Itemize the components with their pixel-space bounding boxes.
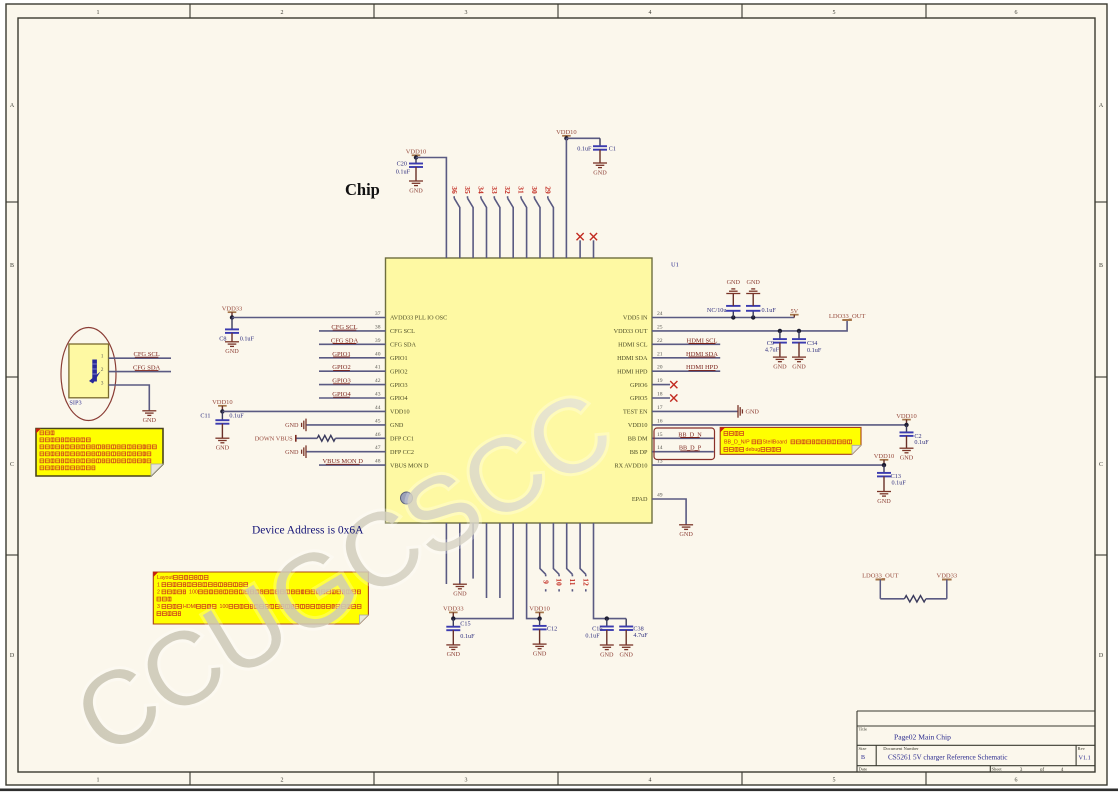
ground xyxy=(225,342,239,355)
net label GPIO1 xyxy=(332,351,350,358)
svg-text:GND: GND xyxy=(593,169,607,176)
ground (pin 45) xyxy=(285,419,306,432)
capacitor C13 0.1uF xyxy=(877,465,906,491)
pin number 32 (rotated) xyxy=(503,186,512,194)
note (BB_D_N/P debug note) xyxy=(720,427,861,454)
svg-text:DOWN VBUS: DOWN VBUS xyxy=(255,436,293,443)
pin number 21 xyxy=(657,351,663,357)
svg-text:4.7uF: 4.7uF xyxy=(633,632,648,639)
svg-text:4: 4 xyxy=(649,778,652,784)
svg-text:36: 36 xyxy=(450,186,459,194)
svg-text:VDD10: VDD10 xyxy=(390,409,410,416)
pin number 44 xyxy=(375,405,381,411)
pin number 20 xyxy=(657,365,663,371)
svg-text:of: of xyxy=(1040,766,1045,773)
ground xyxy=(792,357,806,370)
pin number 16 xyxy=(657,418,663,424)
svg-text:D: D xyxy=(1099,653,1104,659)
svg-text:GND: GND xyxy=(727,279,741,286)
wire top pin 36 xyxy=(454,196,460,258)
svg-text:30: 30 xyxy=(530,186,539,194)
wire bottom pin xyxy=(499,523,501,598)
op-amp U1 IC CS5261 chip body xyxy=(386,258,653,523)
power VDD10 xyxy=(212,399,233,411)
power LDO33_OUT xyxy=(829,313,865,320)
svg-text:B: B xyxy=(1099,263,1103,269)
wire pin 15 xyxy=(652,437,714,439)
svg-text:45: 45 xyxy=(375,418,381,424)
wire pin 41 xyxy=(319,370,386,372)
svg-text:43: 43 xyxy=(375,392,381,398)
svg-text:3: 3 xyxy=(157,604,160,610)
junction xyxy=(564,136,568,140)
power VDD10 xyxy=(529,606,550,619)
wire xyxy=(416,158,446,259)
pin number 37 xyxy=(375,311,381,317)
svg-text:GND: GND xyxy=(447,651,461,658)
svg-text:6: 6 xyxy=(1015,778,1018,784)
pin number 11 (rotated) xyxy=(568,578,577,585)
svg-text:18: 18 xyxy=(657,392,663,398)
wire (nc stub) xyxy=(579,240,581,258)
svg-text:StellBoard: StellBoard xyxy=(763,440,787,446)
wire pin 37 xyxy=(232,317,386,319)
pin number 19 xyxy=(657,378,663,384)
svg-text:GPIO4: GPIO4 xyxy=(390,395,408,402)
note (debug note) xyxy=(36,429,163,477)
svg-text:SIP3: SIP3 xyxy=(69,399,81,406)
no-connect X xyxy=(670,394,677,401)
no-connect X xyxy=(670,381,677,388)
power VDD33 xyxy=(443,606,464,619)
ground (inverted) xyxy=(746,279,760,294)
svg-text:0.1uF: 0.1uF xyxy=(396,168,411,175)
power VDD33 xyxy=(222,305,243,317)
junction xyxy=(605,616,609,620)
svg-text:Sheet: Sheet xyxy=(992,766,1003,771)
svg-text:C12: C12 xyxy=(547,625,557,632)
svg-text:CS5261 5V charger Reference Sc: CS5261 5V charger Reference Schematic xyxy=(888,754,1008,762)
svg-text:12: 12 xyxy=(581,578,590,586)
wire connector pin 3 xyxy=(109,385,150,411)
pin number 38 xyxy=(375,324,381,330)
wire xyxy=(297,437,318,439)
resistor (series, DFP CC1) xyxy=(317,435,335,441)
svg-text:2: 2 xyxy=(157,590,160,596)
wire pin 45 xyxy=(307,424,386,426)
svg-text:3: 3 xyxy=(1020,767,1023,773)
net label GPIO4 xyxy=(332,391,351,398)
net label CFG_SCL xyxy=(133,351,159,358)
wire connector pin 2 xyxy=(109,371,172,373)
pin number 41 xyxy=(375,365,381,371)
net label VBUS_MON_D xyxy=(322,458,363,465)
wire top pin 30 xyxy=(534,196,540,258)
svg-text:1: 1 xyxy=(97,10,100,16)
svg-text:VDD10: VDD10 xyxy=(529,606,550,613)
junction xyxy=(451,616,455,620)
svg-text:Size: Size xyxy=(859,746,867,751)
wire pin 48 xyxy=(319,464,386,466)
ground xyxy=(600,645,614,658)
svg-text:GND: GND xyxy=(877,498,891,505)
pin number 45 xyxy=(375,418,381,424)
svg-text:GND: GND xyxy=(216,445,230,452)
svg-text:31: 31 xyxy=(517,186,526,194)
junction xyxy=(220,409,224,413)
pin number 24 xyxy=(657,311,663,317)
svg-text:BB_D_N/P: BB_D_N/P xyxy=(724,440,750,446)
pin number 47 xyxy=(375,445,381,451)
ground xyxy=(533,644,547,657)
svg-text:D: D xyxy=(10,653,15,659)
wire pin 46 xyxy=(335,437,385,439)
capacitor C38 4.7uF xyxy=(619,619,648,645)
svg-text:CFG SDA: CFG SDA xyxy=(390,342,416,349)
power VDD10 xyxy=(896,413,917,425)
capacitor C34 0.1uF xyxy=(792,331,822,357)
wire xyxy=(880,598,904,600)
wire pin 19 (nc stub) xyxy=(652,384,670,386)
highlight box BB pins xyxy=(654,428,715,460)
wire pin 24 xyxy=(652,317,794,319)
power LDO33_OUT xyxy=(862,573,898,599)
pin number 25 xyxy=(657,324,663,330)
svg-text:V1.1: V1.1 xyxy=(1079,755,1091,762)
ground xyxy=(142,411,156,424)
svg-text:44: 44 xyxy=(375,405,381,411)
svg-text:GND: GND xyxy=(225,348,239,355)
ground (pin 47) xyxy=(285,445,306,458)
svg-text:41: 41 xyxy=(375,365,381,371)
junction xyxy=(797,329,801,333)
svg-text:GPIO6: GPIO6 xyxy=(630,382,648,389)
wire bottom pin 9 xyxy=(540,523,546,592)
svg-text:2: 2 xyxy=(281,10,284,16)
svg-text:C: C xyxy=(1099,462,1103,468)
net label CFG_SDA xyxy=(133,364,161,371)
net label HDMI HPD xyxy=(686,364,718,371)
ground xyxy=(409,181,423,194)
power 5V xyxy=(790,308,799,318)
svg-text:A: A xyxy=(1099,103,1104,109)
svg-text:GPIO2: GPIO2 xyxy=(390,368,408,375)
pin number 10 (rotated) xyxy=(555,578,564,586)
svg-text:HDMI SCL: HDMI SCL xyxy=(618,342,648,349)
svg-text:GND: GND xyxy=(409,187,423,194)
pin number 30 (rotated) xyxy=(530,186,539,194)
net label CFG SDA xyxy=(331,337,359,344)
svg-text:22: 22 xyxy=(657,338,663,344)
svg-text:HDMI HPD: HDMI HPD xyxy=(617,368,648,375)
svg-text:35: 35 xyxy=(463,186,472,194)
net label HDMI SDA xyxy=(686,351,718,358)
net label BB_D_P xyxy=(679,445,702,452)
pin number 15 xyxy=(657,432,663,438)
capacitor C20 0.1uF xyxy=(396,158,423,181)
svg-text:16: 16 xyxy=(657,418,663,424)
power VDD10 (top right) xyxy=(556,129,577,137)
net label BB_D_N xyxy=(678,431,702,438)
no-connect X xyxy=(590,233,597,240)
pin number 42 xyxy=(375,378,381,384)
wire pin 38 xyxy=(319,330,386,332)
svg-text:19: 19 xyxy=(657,378,663,384)
svg-text:3: 3 xyxy=(465,10,468,16)
wire pin 18 (nc stub) xyxy=(652,397,670,399)
wire (nc stub) xyxy=(593,240,595,258)
svg-text:2: 2 xyxy=(281,778,284,784)
svg-text:3: 3 xyxy=(101,380,104,386)
svg-text:10: 10 xyxy=(555,578,564,586)
pin number 39 xyxy=(375,338,381,344)
ground xyxy=(593,163,607,176)
wire pin 22 xyxy=(652,343,720,345)
capacitor C9 4.7uF xyxy=(765,331,787,357)
pin number 35 (rotated) xyxy=(463,186,472,194)
junction xyxy=(414,155,418,159)
no-connect X xyxy=(577,233,584,240)
svg-text:3: 3 xyxy=(465,778,468,784)
wire top pin 32 xyxy=(508,196,514,258)
junction xyxy=(537,616,541,620)
svg-text:1: 1 xyxy=(157,582,160,588)
svg-text:B: B xyxy=(861,755,865,761)
wire xyxy=(453,523,513,619)
svg-text:GND: GND xyxy=(285,449,299,456)
ground xyxy=(877,492,891,505)
svg-text:C1: C1 xyxy=(609,146,616,153)
svg-text:48: 48 xyxy=(375,459,381,465)
highlight ellipse xyxy=(61,328,116,421)
wire pin 20 xyxy=(652,370,720,372)
svg-text:Date: Date xyxy=(859,766,868,771)
svg-text:1: 1 xyxy=(101,354,104,360)
svg-text:debug: debug xyxy=(746,447,761,453)
wire pin 16 xyxy=(652,424,907,426)
svg-text:4: 4 xyxy=(1061,767,1064,773)
svg-text:40: 40 xyxy=(375,351,381,357)
svg-text:5: 5 xyxy=(833,778,836,784)
svg-text:VDD33 OUT: VDD33 OUT xyxy=(614,328,648,335)
wire pin 14 xyxy=(652,451,714,453)
capacitor C11 0.1uF xyxy=(200,411,244,438)
net label CFG SCL xyxy=(331,324,357,331)
svg-text:Chip: Chip xyxy=(345,180,380,199)
svg-text:GND: GND xyxy=(533,650,547,657)
svg-text:17: 17 xyxy=(657,405,663,411)
wire top pin 34 xyxy=(481,196,487,258)
pin number 17 xyxy=(657,405,663,411)
pin number 13 xyxy=(657,459,663,465)
wire xyxy=(926,598,947,600)
ground xyxy=(446,645,460,658)
svg-text:47: 47 xyxy=(375,445,381,451)
pin number 22 xyxy=(657,338,663,344)
svg-text:NC/10u: NC/10u xyxy=(707,307,727,314)
capacitor C1 0.1uF xyxy=(577,138,616,163)
svg-text:0.1uF: 0.1uF xyxy=(585,632,600,639)
junction xyxy=(882,463,886,467)
pin number 49 xyxy=(657,493,663,499)
wire pin 42 xyxy=(319,384,386,386)
svg-text:VDD10: VDD10 xyxy=(628,422,648,429)
junction xyxy=(751,315,755,319)
connector J1 SIP3 xyxy=(69,344,109,406)
wire top pin 29 xyxy=(548,196,554,258)
pin number 43 xyxy=(375,392,381,398)
pin number 18 xyxy=(657,392,663,398)
svg-text:A: A xyxy=(10,103,15,109)
pin number 29 (rotated) xyxy=(543,186,552,194)
wire xyxy=(565,138,567,258)
ground xyxy=(679,525,693,538)
svg-text:32: 32 xyxy=(503,186,512,194)
svg-text:Rev: Rev xyxy=(1078,746,1086,751)
wire pin 21 xyxy=(652,357,720,359)
svg-text:C34: C34 xyxy=(807,340,817,347)
watermark xyxy=(56,369,631,778)
port DOWN_VBUS xyxy=(255,435,296,443)
svg-text:B: B xyxy=(10,263,14,269)
svg-text:Layout: Layout xyxy=(157,575,173,581)
svg-text:4: 4 xyxy=(649,10,652,16)
capacitor C8 0.1uF xyxy=(219,318,254,343)
svg-text:U1: U1 xyxy=(671,262,679,269)
svg-text:EPAD: EPAD xyxy=(632,496,648,503)
pin number 31 (rotated) xyxy=(517,186,526,194)
svg-text:GND: GND xyxy=(390,422,404,429)
junction xyxy=(778,329,782,333)
svg-text:14: 14 xyxy=(657,445,663,451)
capacitor C15 0.1uF xyxy=(446,619,475,645)
capacitor C12 xyxy=(533,619,558,644)
svg-text:0.1uF: 0.1uF xyxy=(229,413,244,420)
ground xyxy=(619,645,633,658)
svg-text:VDD5 IN: VDD5 IN xyxy=(623,315,648,322)
net label HDMI SCL xyxy=(687,337,718,344)
svg-text:GND: GND xyxy=(792,363,806,370)
pin number 36 (rotated) xyxy=(450,186,459,194)
junction xyxy=(230,315,234,319)
svg-text:Device Address is 0x6A: Device Address is 0x6A xyxy=(252,525,364,537)
svg-text:Title: Title xyxy=(859,727,868,732)
svg-text:BB DP: BB DP xyxy=(630,449,648,456)
ground xyxy=(215,438,229,451)
svg-text:C: C xyxy=(10,462,14,468)
pin number 9 (rotated) xyxy=(541,580,550,584)
ground xyxy=(773,357,787,370)
svg-text:2: 2 xyxy=(101,367,104,373)
svg-text:GND: GND xyxy=(600,651,614,658)
wire pin 49 EPAD xyxy=(652,499,686,525)
svg-text:C15: C15 xyxy=(460,621,470,628)
svg-text:C11: C11 xyxy=(200,413,210,420)
pin number 12 (rotated) xyxy=(581,578,590,586)
svg-text:38: 38 xyxy=(375,324,381,330)
pin number 33 (rotated) xyxy=(490,186,499,194)
resistor (LDO33_OUT to VDD33) xyxy=(904,596,926,602)
power VDD10 (top left) xyxy=(406,149,427,158)
svg-text:GND: GND xyxy=(773,363,787,370)
svg-text:0.1uF: 0.1uF xyxy=(762,307,777,314)
svg-text:37: 37 xyxy=(375,311,381,317)
wire bottom pin xyxy=(486,523,488,598)
svg-text:GPIO3: GPIO3 xyxy=(390,382,408,389)
pin number 14 xyxy=(657,445,663,451)
svg-text:HDMI SDA: HDMI SDA xyxy=(617,355,648,362)
wire bottom pin xyxy=(459,523,461,584)
wire xyxy=(594,523,627,619)
note Device Address xyxy=(252,525,364,537)
svg-text:5: 5 xyxy=(833,10,836,16)
svg-text:46: 46 xyxy=(375,432,381,438)
svg-text:25: 25 xyxy=(657,324,663,330)
ground xyxy=(453,584,467,597)
wire top pin 35 xyxy=(468,196,474,258)
net label GPIO3 xyxy=(332,378,350,385)
wire pin 47 xyxy=(307,451,386,453)
svg-text:GND: GND xyxy=(143,417,157,424)
svg-text:DFP CC1: DFP CC1 xyxy=(390,436,414,443)
wire bottom pin 11 xyxy=(567,523,573,592)
svg-text:20: 20 xyxy=(657,365,663,371)
svg-text:GND: GND xyxy=(285,422,299,429)
svg-text:0.1uF: 0.1uF xyxy=(807,347,822,354)
svg-text:9: 9 xyxy=(541,580,550,584)
capacitor 0.1uF xyxy=(746,294,776,318)
svg-text:29: 29 xyxy=(543,186,552,194)
svg-text:0.1uF: 0.1uF xyxy=(240,335,255,342)
wire bottom pin xyxy=(472,523,474,579)
wire xyxy=(527,523,540,619)
svg-text:VDD33: VDD33 xyxy=(443,606,464,613)
wire connector pin 1 xyxy=(109,357,172,359)
wire pin 25 xyxy=(652,320,847,331)
wire top pin 31 xyxy=(521,196,527,258)
svg-text:39: 39 xyxy=(375,338,381,344)
svg-text:4.7uF: 4.7uF xyxy=(765,346,780,353)
power VDD33 xyxy=(937,573,958,599)
capacitor C-NC/10u xyxy=(707,294,741,318)
svg-text:GND: GND xyxy=(746,279,760,286)
pin number 40 xyxy=(375,351,381,357)
wire bottom pin xyxy=(445,523,447,584)
wire pin 17 xyxy=(652,410,738,412)
svg-text:0.1uF: 0.1uF xyxy=(577,146,592,153)
svg-text:49: 49 xyxy=(657,493,663,499)
svg-text:15: 15 xyxy=(657,432,663,438)
ground (inverted) xyxy=(726,279,740,294)
title text Chip xyxy=(345,180,380,199)
svg-text:42: 42 xyxy=(375,378,381,384)
svg-text:GND: GND xyxy=(453,591,467,598)
svg-text:TEST EN: TEST EN xyxy=(623,409,648,416)
note (Layout note) xyxy=(153,572,368,624)
svg-text:GND: GND xyxy=(746,409,760,416)
svg-text:Page02 Main Chip: Page02 Main Chip xyxy=(894,733,951,742)
wire pin 40 xyxy=(319,357,386,359)
svg-text:CFG SCL: CFG SCL xyxy=(390,328,415,335)
svg-text:DFP CC2: DFP CC2 xyxy=(390,449,414,456)
svg-text:GND: GND xyxy=(900,455,914,462)
junction xyxy=(904,423,908,427)
power VDD10 xyxy=(874,453,895,466)
capacitor C2 0.1uF xyxy=(900,425,930,448)
svg-text:GPIO1: GPIO1 xyxy=(390,355,408,362)
wire pin 44 xyxy=(222,410,385,412)
svg-text:AVDD33 PLL IO OSC: AVDD33 PLL IO OSC xyxy=(390,315,447,322)
